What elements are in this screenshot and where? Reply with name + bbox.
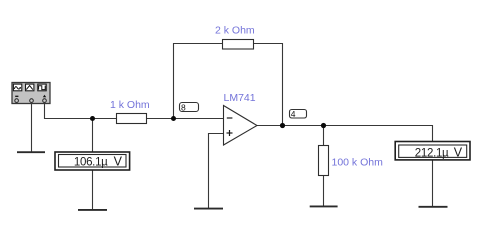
function generator XFG1 bbox=[12, 83, 50, 104]
svg-text:8: 8 bbox=[181, 102, 186, 112]
resistor R1 bbox=[117, 114, 147, 124]
svg-text:LM741: LM741 bbox=[224, 92, 256, 104]
svg-text:100 k Ohm: 100 k Ohm bbox=[332, 156, 384, 168]
ground (under resistor R3) bbox=[310, 205, 338, 207]
wire: op-amp non-inverting input to ground bbox=[209, 134, 224, 209]
node junction (input node) bbox=[90, 116, 95, 121]
wire: R1 to op-amp inverting input bbox=[147, 118, 224, 120]
wire: output node down to R3 bbox=[323, 126, 325, 147]
voltmeter V1 (106.1u V) bbox=[55, 152, 130, 170]
svg-text:V: V bbox=[114, 155, 123, 169]
wire: function generator common terminal to ground bbox=[31, 103, 33, 152]
voltmeter V2 (212.1u V) bbox=[395, 142, 470, 160]
svg-text:V: V bbox=[454, 146, 463, 160]
ground (under voltmeter V1) bbox=[78, 209, 107, 211]
wire: op-amp output to voltmeter V2 bbox=[257, 126, 433, 143]
node badge 4 bbox=[290, 109, 307, 119]
ground (under voltmeter V2) bbox=[419, 206, 448, 208]
wire: voltmeter V1 to ground bbox=[92, 170, 94, 210]
svg-text:4: 4 bbox=[291, 109, 296, 119]
ground (under function generator common) bbox=[17, 151, 45, 153]
wire: R3 to ground bbox=[323, 175, 325, 206]
op-amp U1 bbox=[224, 106, 258, 146]
svg-text:106.1µ: 106.1µ bbox=[74, 156, 108, 168]
node junction (inverting input node) bbox=[171, 116, 176, 121]
resistor R3 bbox=[319, 146, 329, 176]
node badge 8 bbox=[180, 102, 199, 112]
node junction (feedback / output) bbox=[280, 123, 285, 128]
svg-text:2 k Ohm: 2 k Ohm bbox=[215, 25, 255, 37]
wire: feedback loop (up, across through R2, down to output node) bbox=[174, 44, 283, 126]
node junction (load node) bbox=[321, 123, 326, 128]
resistor R2 bbox=[223, 40, 254, 50]
svg-text:212.1µ: 212.1µ bbox=[415, 147, 449, 159]
ground (under op-amp non-inverting loop) bbox=[194, 208, 223, 210]
wire: voltmeter V2 to ground bbox=[432, 160, 434, 207]
svg-text:1 k Ohm: 1 k Ohm bbox=[110, 99, 150, 111]
wire: input node down to voltmeter V1 bbox=[92, 119, 94, 153]
wire: function generator + terminal to input node bbox=[45, 103, 117, 119]
